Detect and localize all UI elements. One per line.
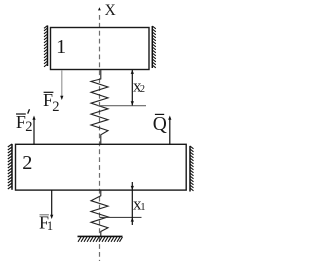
dimension x2 line with arrows [131,70,134,106]
spring upper between block 1 and block 2 [91,70,108,145]
axis X arrowhead [98,7,101,10]
mass block 1 [51,28,150,70]
svg-text:2: 2 [140,84,145,95]
force F2 label [43,90,59,115]
dimension label x1 [133,195,146,214]
force Q arrow on block 2 [168,116,171,145]
force F2prime label [16,109,33,135]
reference line for x2 [98,105,146,107]
wall support right of block 1 [152,26,156,68]
force F2 arrow on block 1 [60,70,63,100]
svg-text:2: 2 [52,99,59,115]
reference line for x1 [100,216,142,218]
svg-text:1: 1 [56,36,66,58]
mass block 2 [16,144,187,190]
dimension label x2 [133,77,145,96]
spring lower between block 2 and ground [91,190,108,236]
svg-text:2: 2 [22,152,32,174]
dimension x1 line with outside arrows [131,182,134,225]
axis X dashed line [99,15,101,261]
ground [78,236,123,241]
force F1 label [39,213,53,233]
svg-text:Q: Q [153,114,167,135]
svg-text:1: 1 [47,219,53,233]
svg-text:X: X [105,2,116,19]
svg-text:1: 1 [140,201,145,213]
wall support left of block 1 [44,26,48,67]
wall support left of block 2 [8,144,12,190]
force F2prime arrow on block 2 [32,116,35,145]
force Q label [153,114,167,135]
svg-text:2: 2 [25,119,32,135]
force F1 arrow on block 2 [50,190,53,219]
wall support right of block 2 [190,146,194,192]
